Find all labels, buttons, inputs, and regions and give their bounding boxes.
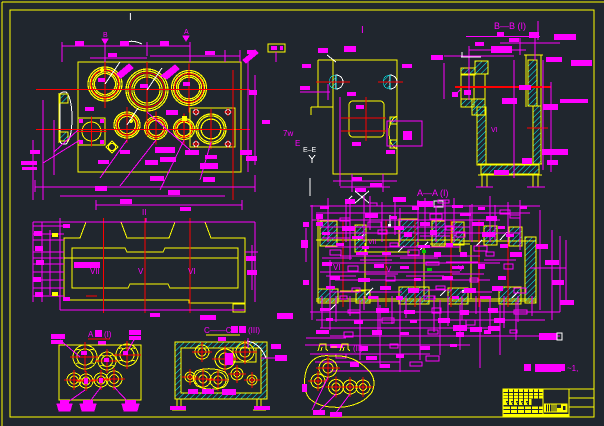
svg-text:(II): (II)	[353, 344, 363, 353]
svg-text:A—A (I): A—A (I)	[417, 188, 449, 198]
svg-text:VI: VI	[491, 127, 498, 134]
svg-text:VI: VI	[188, 267, 196, 276]
svg-text:I: I	[129, 12, 132, 23]
svg-text:(I): (I)	[104, 330, 112, 339]
svg-text:~1,: ~1,	[567, 364, 578, 373]
svg-text:7w: 7w	[283, 129, 293, 138]
svg-text:VI: VI	[333, 263, 341, 272]
svg-text:VII: VII	[90, 267, 100, 276]
svg-text:C——C: C——C	[204, 326, 232, 335]
svg-text:II: II	[142, 208, 146, 217]
svg-text:E: E	[295, 139, 300, 148]
svg-text:I: I	[361, 25, 364, 36]
svg-text:A: A	[88, 330, 94, 339]
svg-text:A: A	[184, 29, 189, 36]
svg-text:V: V	[138, 267, 144, 276]
svg-text:B—B (I): B—B (I)	[494, 21, 526, 31]
svg-text:B: B	[103, 32, 108, 39]
svg-text:V: V	[386, 265, 392, 274]
svg-text:(III): (III)	[248, 326, 260, 335]
svg-text:V: V	[458, 264, 464, 273]
svg-text:VII: VII	[368, 239, 377, 246]
svg-text:E–E: E–E	[303, 147, 317, 154]
